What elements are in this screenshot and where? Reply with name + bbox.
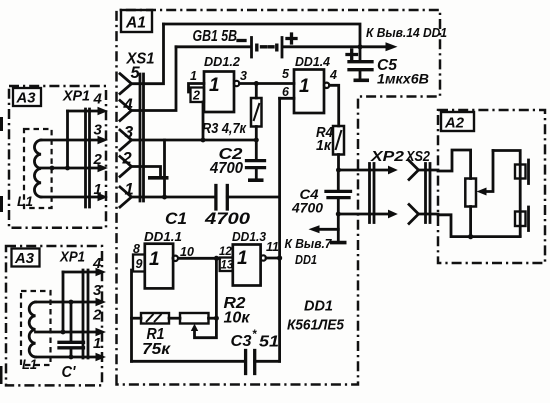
svg-text:DD1.2: DD1.2 (204, 54, 241, 69)
node R3/C2 junction dot (254, 138, 259, 143)
wire DD1.1 output to DD1.3 inputs (179, 257, 220, 260)
svg-text:9: 9 (136, 257, 143, 271)
svg-text:12: 12 (219, 246, 232, 258)
L1 (top) dashed adjustment box (24, 129, 52, 208)
svg-text:L1: L1 (17, 193, 33, 209)
capacitor C4 wires (337, 170, 340, 241)
svg-text:75к: 75к (142, 341, 171, 358)
connector XP1 (bottom) body double lines (83, 270, 88, 358)
earphone capsule 2 (A2) (515, 207, 529, 231)
wire C3 bottom row (132, 360, 246, 363)
R2 labels (224, 295, 251, 327)
arrow to pin 7 DD1 (309, 225, 339, 233)
capacitor C' label (62, 364, 77, 381)
capacitor C1 plates (216, 186, 227, 210)
svg-text:5: 5 (282, 67, 290, 81)
node DD1.2 output junction dot (254, 81, 259, 86)
capacitor C5 wires (359, 47, 362, 79)
label К Выв.7 DD1 (285, 236, 333, 267)
node A2 bottom junction dot (468, 234, 473, 239)
block A3 (bottom) dash-dot border (6, 246, 102, 385)
svg-text:3: 3 (240, 69, 247, 83)
wire A2 bottom stub and rail (438, 215, 520, 237)
XP1 (top) pin 1 wire and arrow (41, 193, 108, 202)
XS1 pin 2 label (122, 150, 132, 168)
capacitor C4 plates (326, 191, 351, 197)
svg-text:A2: A2 (444, 115, 465, 132)
svg-text:1мкx6В: 1мкx6В (377, 71, 429, 87)
node R4/C4/XP2 junction dot (336, 168, 341, 173)
potentiometer wiper arrow (477, 151, 494, 196)
DD1.4 pin 6 wire (280, 97, 294, 100)
wire DD1.1 out to R2 vertical (215, 258, 218, 318)
label К Выв.14 DD1 (366, 25, 447, 40)
wire A2 top right rail (493, 151, 520, 236)
DD1.2 output inversion circle (234, 81, 239, 86)
svg-text:GB1 5В: GB1 5В (193, 28, 238, 45)
XP1 (top) pin 3 label (94, 122, 103, 139)
svg-text:2: 2 (92, 307, 102, 324)
XS1 pin 3 label (124, 124, 133, 142)
wire XS1 pin5 to V+ rail (132, 24, 164, 84)
svg-text:A1: A1 (125, 15, 146, 32)
capacitor C5 plates (349, 62, 372, 70)
capacitor C3 plates (246, 351, 255, 374)
svg-text:К Выв.14 DD1: К Выв.14 DD1 (366, 25, 447, 40)
junction dots (top A3) (50, 166, 70, 171)
capacitor C' branch wires (70, 302, 73, 357)
R1 labels (142, 326, 171, 358)
svg-text:2: 2 (122, 150, 132, 168)
connector XP1 (top) body double lines (86, 109, 90, 207)
svg-text:*: * (252, 329, 257, 341)
node DD1.2 input junction dot (201, 138, 206, 143)
block A1 label box (121, 10, 152, 32)
earphone capsule 1 (A2) (515, 160, 529, 184)
connector XS2 body double lines (426, 164, 431, 223)
connector XS1 label (126, 51, 155, 83)
C3 label (231, 329, 280, 351)
wire V+ rail (top) (164, 24, 361, 47)
capacitor C2 plates (247, 161, 265, 168)
DD1.4 pin 5 label (282, 67, 290, 81)
svg-text:1: 1 (299, 76, 310, 97)
common rail bar under C5 (354, 79, 370, 83)
connector XS1 body double lines (140, 74, 144, 201)
wire jumper pin4-pin2 (top A3) (66, 111, 69, 168)
ground (common bar) at XS1 pin2 (148, 176, 169, 180)
connector XP1 (bottom) label (59, 249, 85, 266)
connector XP1 (top) label (62, 88, 90, 105)
XP1 (bottom) pin 3 wire and arrow (36, 298, 107, 307)
svg-text:1к: 1к (316, 138, 332, 154)
svg-text:51: 51 (259, 334, 279, 351)
XP1 (bottom) pin 4 label (92, 255, 102, 272)
svg-text:C1: C1 (165, 209, 187, 228)
DD1.2 pin 1 label (190, 69, 197, 83)
C5 plus sign (347, 50, 357, 59)
wire XS2 bottom to A2 (419, 213, 439, 216)
svg-text:4: 4 (93, 91, 103, 108)
block A2 dash-dot border (438, 110, 545, 263)
node V+ junction dot (358, 44, 363, 49)
scan edge artifact 1 (0, 117, 3, 131)
C1 labels (165, 209, 251, 228)
block A1 dash-dot border (117, 10, 441, 385)
XP2 top contact arrow (388, 166, 398, 175)
node DD1.1 out / R2 junction dot (214, 256, 219, 261)
op-gate DD1.2 body (204, 72, 234, 113)
wire DD1.3 output to C3 branch (266, 257, 280, 260)
resistor R3 leads (255, 84, 258, 141)
XP1 (top) pin 2 wire and arrow (41, 164, 108, 173)
svg-text:DD1.1: DD1.1 (144, 229, 182, 244)
capacitor C2 wires (255, 140, 258, 178)
scan edge artifact 2 (0, 196, 3, 212)
XS2 top contact chevron (409, 161, 419, 180)
DD1.1 pin 10 label (180, 245, 194, 259)
svg-text:L1: L1 (22, 356, 37, 372)
DD1.3 pin 12 label (219, 246, 232, 258)
wire XP2 bottom row (338, 213, 388, 216)
C4 labels (291, 187, 324, 216)
svg-text:1: 1 (209, 75, 220, 96)
op-gate DD1.4 body (294, 70, 324, 114)
connector XP2 body double lines (370, 164, 375, 223)
wire XS2 top to A2 (419, 169, 439, 172)
block A3 (top) dash-dot border (9, 86, 106, 228)
resistor R3 body (251, 98, 262, 127)
svg-text:1: 1 (190, 69, 197, 83)
DD1.1 output inversion circle (173, 256, 178, 261)
capacitor C5 labels (377, 57, 429, 87)
svg-text:1: 1 (93, 335, 101, 352)
svg-text:К561ЛЕ5: К561ЛЕ5 (287, 317, 345, 334)
XS1 pin 4 label (123, 96, 133, 114)
junction dots (bottom A3) (61, 300, 74, 360)
block A3 (top) label box (13, 88, 41, 107)
wire A2 top stub to potentiometer top (438, 150, 471, 179)
wire XS1 pin4 to battery minus rail (132, 47, 177, 111)
wire C1 to oscillator vertical (227, 196, 279, 199)
wire DD1.1 inputs to R1 row (130, 270, 133, 361)
block A2 label box (441, 112, 474, 132)
svg-text:10к: 10к (224, 310, 251, 327)
svg-text:DD1: DD1 (304, 298, 333, 315)
svg-text:DD1: DD1 (295, 252, 317, 267)
wire battery rail left (176, 45, 250, 48)
svg-text:4700: 4700 (204, 209, 251, 228)
node R2 junction dot (214, 316, 219, 321)
resistor R4 body (333, 126, 344, 155)
battery GB1 label (193, 28, 238, 45)
svg-text:4700: 4700 (291, 201, 324, 216)
battery GB1 cells (252, 38, 283, 58)
connector XP2 label (370, 149, 404, 165)
DD1.1 pin 9 box (133, 255, 145, 272)
svg-text:A3: A3 (16, 90, 37, 107)
inductor L1 (top A3) (34, 140, 41, 197)
wire XS1 pin2 to ground (132, 167, 161, 177)
svg-text:C': C' (62, 364, 77, 381)
XP1 (bottom) pin 3 label (93, 282, 102, 299)
op-gate DD1.3 body (233, 245, 261, 286)
svg-text:3: 3 (93, 282, 102, 299)
battery plus sign (287, 34, 296, 43)
label DD1 К561ЛЕ5 (287, 298, 345, 334)
DD1.3 pin 11 label (266, 240, 279, 254)
svg-text:DD1.3: DD1.3 (232, 229, 267, 244)
wire tank link vertical (163, 140, 166, 197)
inductor L1 (bottom A3) (29, 302, 35, 357)
battery minus sign (238, 39, 245, 42)
gate DD1.4 designator (295, 54, 331, 69)
svg-text:4: 4 (329, 68, 337, 82)
wire DD1.2 output row to DD1.4 input 5 (240, 82, 295, 85)
DD1.2 pin 3 label (240, 69, 247, 83)
gate DD1.3 designator (232, 229, 267, 244)
XP1 (top) pin 1 label (94, 181, 102, 198)
svg-text:A3: A3 (14, 250, 35, 267)
svg-text:DD1.4: DD1.4 (295, 54, 331, 69)
XS1 contact 4 (socket chevron) (120, 101, 132, 121)
svg-text:13: 13 (221, 260, 234, 272)
svg-text:C3: C3 (231, 333, 252, 350)
svg-text:1: 1 (149, 249, 160, 270)
node C4/XP2 bottom junction dot (336, 212, 341, 217)
node C1 row left junction dot (162, 195, 167, 200)
XP1 (top) pin 3 wire and arrow (41, 136, 108, 145)
potentiometer body (A2) (465, 179, 476, 207)
R2 lead (209, 317, 217, 320)
XP1 (bottom) pin 2 label (92, 307, 102, 324)
R4 labels (316, 125, 333, 154)
DD1.3 output inversion circle (261, 255, 266, 260)
XP1 (bottom) pin 1 wire and arrow (36, 353, 107, 362)
svg-text:1: 1 (237, 248, 248, 269)
XP1 (top) pin 4 wire and arrow (68, 107, 109, 116)
op-gate DD1.1 body (145, 244, 173, 289)
svg-text:R3 4,7к: R3 4,7к (202, 121, 247, 137)
XS1 contact 3 (socket chevron) (120, 130, 132, 150)
wire oscillator signal vertical (pin6 / C1 / DD1.3 out / C3) (278, 98, 281, 361)
capacitor C' plates (59, 342, 84, 348)
DD1.2 pin 1 wire (189, 84, 205, 93)
gate DD1.1 designator (144, 229, 182, 244)
wire battery rail right (283, 45, 360, 48)
wire C3 to DD1.3 output (255, 360, 280, 363)
XP1 (bottom) pin 4 wire and arrow (63, 268, 106, 277)
XP1 (top) pin 2 label (93, 151, 103, 168)
gate DD1.2 designator (204, 54, 241, 69)
wire potentiometer bottom (469, 207, 472, 237)
DD1.2 pin 2 box (191, 88, 205, 103)
wire DD1.2 inputs to feedback row (202, 102, 205, 140)
XP1 (top) pin 4 label (93, 91, 103, 108)
svg-text:2: 2 (192, 89, 200, 103)
arrow to pin 14 DD1 (360, 42, 398, 51)
common rail bar under C2 (248, 178, 264, 182)
XS1 contact 5 (socket chevron) (120, 74, 132, 94)
XP2 bottom contact arrow (388, 210, 398, 219)
R4 lower lead (337, 155, 340, 171)
R2 wiper arrow (191, 318, 217, 338)
DD1.4 output inversion circle (324, 83, 329, 88)
L1 (bottom) dashed adjustment box (21, 291, 51, 365)
wire feedback row (XS1 pin3 to R3/C2) (132, 139, 257, 142)
DD1.4 pin 6 label (282, 85, 290, 99)
node DD1.3 output corner dot (277, 255, 282, 260)
XP1 (bottom) pin 1 label (93, 335, 101, 352)
XS1 pin 1 label (125, 181, 134, 199)
wire XS1 pin1 / C1 row (132, 196, 216, 199)
block A3 (bottom) label box (12, 249, 40, 268)
connector XS2 label (405, 149, 430, 165)
DD1.4 pin 4 label (329, 68, 337, 82)
common rail bar under C4 (330, 241, 347, 245)
L1 (bottom) label (22, 356, 37, 372)
L1 (top) label (17, 193, 33, 209)
XS2 bottom contact chevron (409, 205, 419, 224)
svg-text:XP1: XP1 (59, 249, 85, 266)
DD1.3 pin 13 box (220, 258, 234, 272)
wire XP2 top row (339, 169, 389, 172)
wire jumper pin4-pin2 (bottom A3) (62, 272, 65, 332)
wire DD1.4 output to R4 (330, 85, 339, 126)
scan edge artifact 3 (0, 366, 3, 384)
resistor R1 body (141, 313, 169, 324)
svg-text:К Выв.7: К Выв.7 (285, 236, 333, 251)
svg-text:4700: 4700 (209, 160, 243, 177)
R3 label (202, 121, 247, 137)
svg-text:XP1: XP1 (62, 88, 90, 105)
trimmer R2 body (180, 313, 209, 324)
DD1.1 pin 8 label (133, 242, 140, 256)
C2 labels (209, 146, 243, 177)
svg-text:11: 11 (266, 240, 279, 254)
XP1 (bottom) pin 2 wire and arrow (36, 328, 107, 337)
XS1 contact 2 (socket chevron) (120, 157, 132, 177)
XS1 contact 1 (socket chevron) (120, 187, 132, 207)
R1 leads (132, 317, 181, 320)
